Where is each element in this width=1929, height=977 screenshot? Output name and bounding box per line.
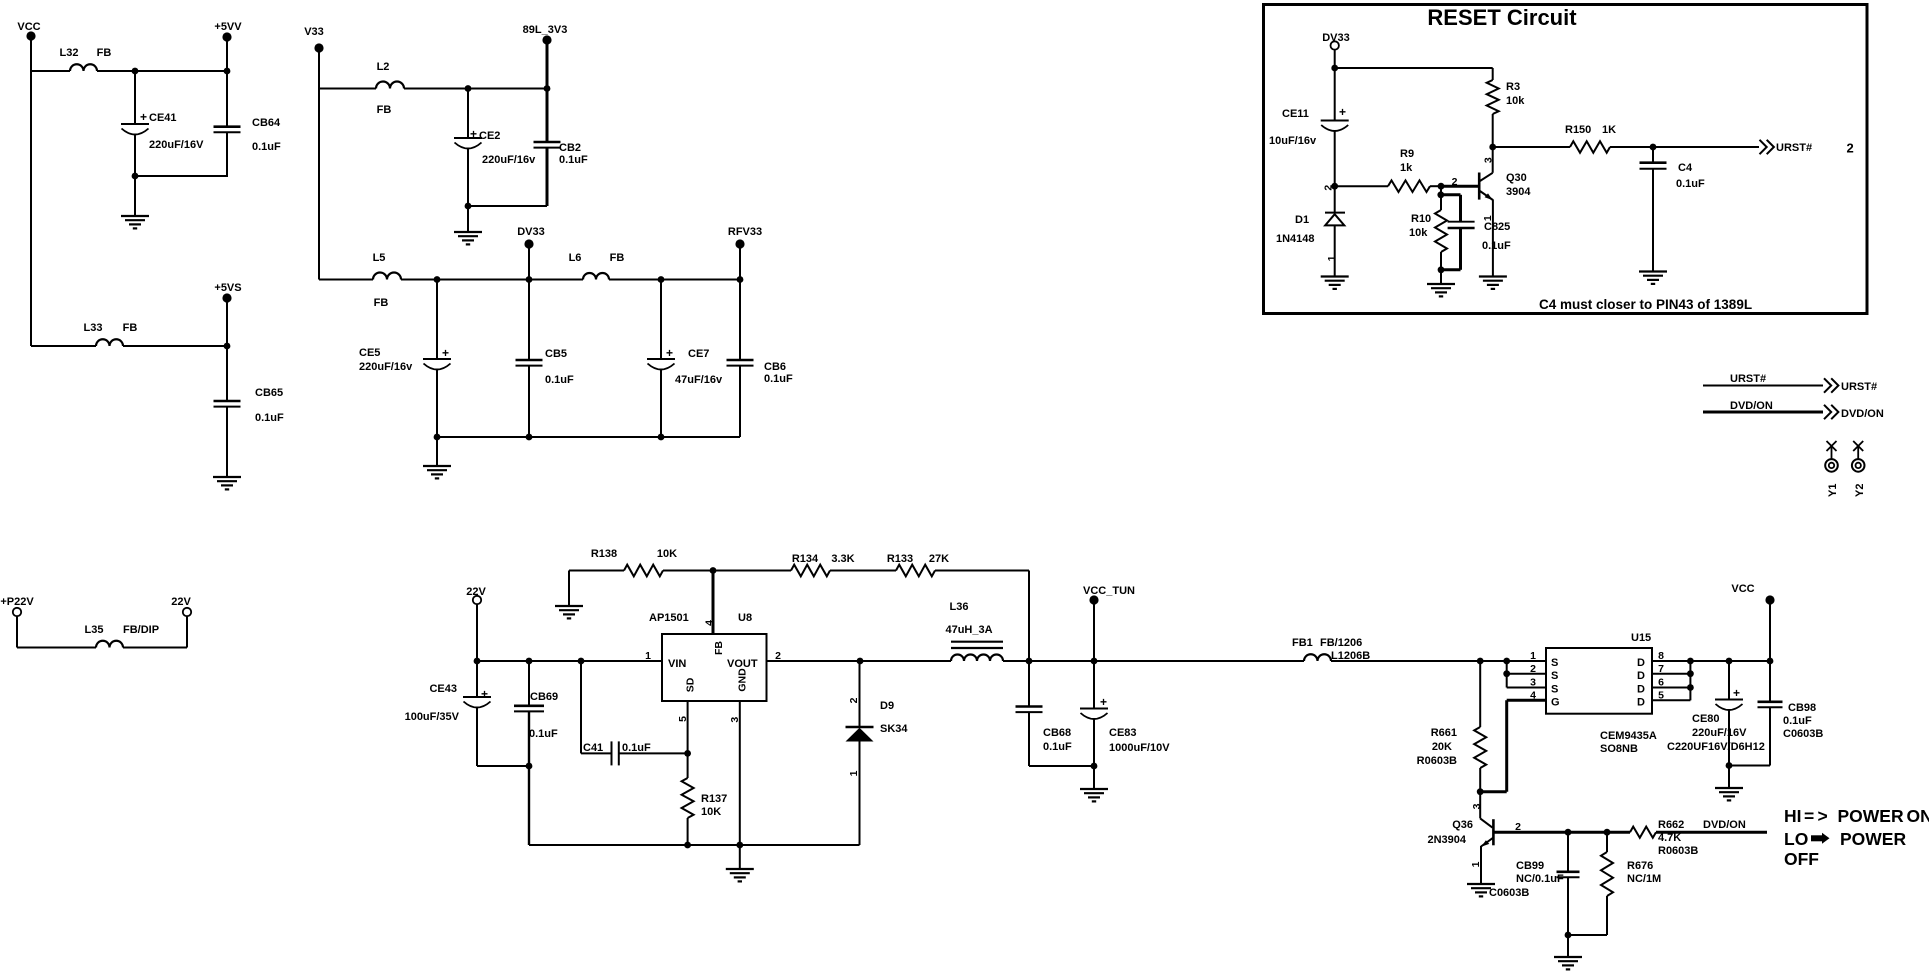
wire (319, 88, 376, 90)
wire (17, 647, 96, 649)
wire (1335, 185, 1388, 187)
svg-text:C4: C4 (1678, 162, 1693, 174)
wire (1440, 186, 1442, 195)
junction (1437, 191, 1444, 198)
wire (1093, 766, 1095, 789)
node +P22V (13, 608, 21, 616)
capacitor CB65 (226, 346, 228, 401)
transistor Q36 2N3904 (1479, 792, 1481, 819)
junction (1726, 762, 1733, 769)
junction (1438, 183, 1445, 190)
svg-text:+: + (666, 346, 673, 360)
connector URST# (1760, 140, 1774, 154)
wire pin7 (1652, 673, 1690, 675)
junction (658, 434, 665, 441)
inductor L5 (373, 273, 401, 280)
junction (434, 434, 441, 441)
svg-text:SD: SD (685, 677, 697, 692)
svg-text:D: D (1637, 684, 1645, 696)
wire pin8 (1652, 660, 1690, 662)
junction (1503, 670, 1510, 677)
svg-text:20K: 20K (1432, 741, 1452, 753)
wire (1728, 766, 1730, 789)
junction (684, 842, 691, 849)
svg-text:89L_3V3: 89L_3V3 (523, 24, 568, 36)
svg-text:3: 3 (1471, 803, 1483, 809)
svg-text:Q36: Q36 (1452, 819, 1473, 831)
ground (555, 606, 583, 618)
wire pin3 (1506, 674, 1508, 688)
svg-text:2: 2 (1452, 176, 1458, 188)
svg-text:DV33: DV33 (517, 226, 545, 238)
capacitor CB64 (226, 71, 228, 127)
node VCC_TUN (1089, 595, 1098, 604)
node V33 (314, 43, 323, 52)
junction (1767, 658, 1774, 665)
node 89L_3V3 (542, 35, 551, 44)
svg-text:D: D (1637, 657, 1645, 669)
wire (404, 88, 547, 90)
wire (568, 571, 570, 607)
wire (476, 604, 478, 661)
capacitor CB69 (528, 661, 530, 706)
inductor L35 (96, 641, 123, 648)
svg-text:2N3904: 2N3904 (1427, 834, 1466, 846)
junction (1331, 183, 1338, 190)
wire (1653, 146, 1759, 148)
wire (319, 279, 373, 281)
svg-text:CE80: CE80 (1692, 713, 1720, 725)
wire (609, 279, 740, 281)
ground (1321, 277, 1349, 289)
wire (16, 616, 18, 648)
svg-text:L33: L33 (84, 322, 103, 334)
wire pin5 (1652, 699, 1690, 701)
capacitor C825 (1441, 193, 1461, 196)
svg-text:220uF/16V: 220uF/16V (149, 139, 204, 151)
ground (1427, 284, 1455, 296)
junction (526, 658, 533, 665)
svg-text:RESET Circuit: RESET Circuit (1427, 5, 1577, 30)
svg-text:0.1uF: 0.1uF (1482, 240, 1511, 252)
svg-text:3.3K: 3.3K (831, 553, 854, 565)
svg-text:CB5: CB5 (545, 348, 567, 360)
svg-text:C220UF16V/D6H12: C220UF16V/D6H12 (1667, 741, 1765, 753)
wire pin5 SD (687, 701, 689, 753)
svg-text:1: 1 (848, 770, 860, 776)
svg-text:S: S (1551, 684, 1558, 696)
wire (1568, 934, 1607, 936)
svg-text:CEM9435A: CEM9435A (1600, 730, 1657, 742)
wire (401, 279, 583, 281)
ground (423, 466, 451, 478)
resistor R662 (1630, 827, 1656, 838)
transistor Q30 3904 (1478, 173, 1481, 200)
svg-text:R137: R137 (701, 793, 727, 805)
capacitor CB2 (546, 89, 549, 142)
svg-text:C41: C41 (583, 742, 603, 754)
inductor L6 (583, 273, 609, 280)
wire VIN (477, 660, 662, 662)
svg-text:220uF/16v: 220uF/16v (482, 154, 536, 166)
svg-text:220uF/16V: 220uF/16V (1692, 727, 1747, 739)
svg-text:1K: 1K (1602, 124, 1616, 136)
junction (684, 750, 691, 757)
svg-text:D: D (1637, 670, 1645, 682)
svg-text:CB64: CB64 (252, 117, 281, 129)
svg-text:LO: LO (1784, 829, 1808, 849)
ground (726, 869, 754, 881)
svg-text:3904: 3904 (1506, 186, 1531, 198)
svg-text:2: 2 (1323, 185, 1335, 191)
ground (121, 216, 149, 228)
junction (1726, 658, 1733, 665)
junction (465, 203, 472, 210)
svg-text:FB/DIP: FB/DIP (123, 624, 159, 636)
svg-text:CE5: CE5 (359, 347, 380, 359)
wire (1729, 765, 1770, 767)
diode D1 1N4148 (1334, 186, 1336, 212)
svg-text:0.1uF: 0.1uF (1676, 178, 1705, 190)
capacitor CE41 (134, 71, 136, 124)
svg-text:2: 2 (1515, 821, 1521, 833)
junction (737, 276, 744, 283)
svg-text:0.1uF: 0.1uF (622, 742, 651, 754)
resistor R133 (896, 565, 935, 577)
wire (318, 89, 320, 280)
wire (569, 570, 624, 572)
svg-text:0.1uF: 0.1uF (1043, 741, 1072, 753)
svg-text:10k: 10k (1409, 227, 1428, 239)
svg-text:Y2: Y2 (1854, 484, 1866, 497)
wire base Q30 (1441, 185, 1479, 188)
svg-text:R662: R662 (1658, 819, 1684, 831)
wire (1093, 604, 1095, 661)
svg-text:FB: FB (713, 641, 725, 655)
wire (318, 52, 320, 89)
svg-text:0.1uF: 0.1uF (252, 141, 281, 153)
svg-text:L5: L5 (373, 252, 386, 264)
wire base Q36 (1493, 831, 1630, 834)
svg-text:10uF/16v: 10uF/16v (1269, 135, 1317, 147)
svg-text:S: S (1551, 670, 1558, 682)
wire (1656, 831, 1767, 834)
junction (1687, 658, 1694, 665)
svg-text:0.1uF: 0.1uF (559, 154, 588, 166)
junction (1091, 763, 1098, 770)
svg-text:47uF/16v: 47uF/16v (675, 374, 723, 386)
svg-text:2: 2 (848, 697, 860, 703)
ground (1554, 957, 1582, 969)
svg-text:10K: 10K (657, 548, 677, 560)
svg-text:L36: L36 (950, 601, 969, 613)
wire (467, 206, 469, 232)
svg-text:Y1: Y1 (1827, 484, 1839, 497)
node RFV33 (735, 239, 744, 248)
svg-text:4: 4 (704, 620, 716, 626)
svg-text:1k: 1k (1400, 162, 1413, 174)
wire (123, 647, 187, 649)
svg-text:1000uF/10V: 1000uF/10V (1109, 742, 1170, 754)
svg-text:CE41: CE41 (149, 112, 177, 124)
capacitor CB98 (1769, 661, 1771, 702)
wire (935, 570, 1029, 572)
wire (468, 205, 547, 207)
node VCC (26, 31, 35, 40)
wire (134, 176, 136, 216)
junction (1026, 658, 1033, 665)
wire (1440, 270, 1442, 284)
wire drain bus (1689, 661, 1691, 700)
svg-text:L6: L6 (569, 252, 582, 264)
svg-text:R0603B: R0603B (1658, 845, 1698, 857)
svg-text:CB99: CB99 (1516, 860, 1544, 872)
svg-text:NC/1M: NC/1M (1627, 873, 1661, 885)
junction (1091, 658, 1098, 665)
svg-text:C0603B: C0603B (1489, 887, 1529, 899)
svg-text:R661: R661 (1431, 727, 1457, 739)
svg-text:CE43: CE43 (429, 683, 457, 695)
wire (226, 41, 228, 71)
svg-text:2: 2 (1847, 141, 1854, 156)
test point Y1 (1825, 441, 1838, 472)
svg-text:FB1: FB1 (1292, 637, 1313, 649)
svg-text:FB/1206: FB/1206 (1320, 637, 1362, 649)
resistor R661 (1479, 661, 1481, 727)
ground (1467, 884, 1495, 896)
svg-text:1: 1 (1326, 255, 1338, 261)
inductor L32 (70, 64, 97, 71)
node +5VV (222, 32, 231, 41)
wire (30, 71, 32, 346)
svg-text:URST#: URST# (1776, 142, 1812, 154)
wire (1493, 146, 1570, 148)
svg-text:+5VS: +5VS (214, 282, 241, 294)
svg-text:0.1uF: 0.1uF (529, 728, 558, 740)
svg-text:G: G (1551, 696, 1560, 708)
node DV33 (524, 239, 533, 248)
ic U8 AP1501 (662, 634, 767, 701)
svg-text:R150: R150 (1565, 124, 1591, 136)
svg-text:+: + (140, 110, 147, 124)
wire (1003, 660, 1304, 662)
svg-text:47uH_3A: 47uH_3A (945, 624, 992, 636)
wire pin2 (1506, 661, 1508, 674)
capacitor CE7 (660, 280, 662, 360)
svg-text:CB65: CB65 (255, 387, 283, 399)
svg-text:>: > (1818, 806, 1828, 826)
svg-text:FB: FB (123, 322, 138, 334)
wire (97, 70, 227, 72)
svg-text:VCC_TUN: VCC_TUN (1083, 585, 1135, 597)
svg-text:1N4148: 1N4148 (1276, 233, 1315, 245)
capacitor CE11 (1334, 68, 1336, 121)
junction (1565, 932, 1572, 939)
wire (1334, 50, 1336, 69)
resistor R676 (1606, 832, 1608, 852)
svg-text:22V: 22V (466, 586, 486, 598)
svg-text:R9: R9 (1400, 148, 1414, 160)
svg-text:+: + (1733, 686, 1740, 700)
wire (1567, 935, 1569, 957)
wire pin6 (1652, 687, 1690, 689)
svg-text:D9: D9 (880, 700, 894, 712)
svg-text:S: S (1551, 657, 1558, 669)
svg-text:VCC: VCC (1731, 583, 1754, 595)
wire (436, 437, 438, 466)
svg-text:CE2: CE2 (479, 130, 500, 142)
junction (526, 276, 533, 283)
ground (1080, 789, 1108, 801)
svg-text:HI: HI (1784, 806, 1802, 826)
svg-text:CE83: CE83 (1109, 727, 1137, 739)
svg-text:5: 5 (677, 716, 689, 722)
svg-text:22V: 22V (171, 596, 191, 608)
svg-text:10k: 10k (1506, 95, 1525, 107)
inductor L2 (376, 82, 404, 89)
resistor R9 (1388, 180, 1430, 192)
svg-text:FB: FB (610, 252, 625, 264)
svg-text:0.1uF: 0.1uF (1783, 715, 1812, 727)
svg-text:FB: FB (97, 47, 112, 59)
svg-text:C825: C825 (1484, 221, 1510, 233)
reset circuit border (1264, 5, 1868, 314)
capacitor C41 (580, 661, 582, 753)
junction (526, 434, 533, 441)
wire (1331, 660, 1546, 662)
svg-text:4.7K: 4.7K (1658, 832, 1681, 844)
resistor R3 (1492, 68, 1494, 80)
svg-text:DVD/ON: DVD/ON (1703, 819, 1746, 831)
wire (1430, 185, 1441, 187)
svg-text:+: + (442, 346, 449, 360)
svg-text:1: 1 (1530, 650, 1536, 662)
svg-text:L32: L32 (60, 47, 79, 59)
svg-text:CB68: CB68 (1043, 727, 1071, 739)
node DV33 (1331, 41, 1339, 49)
svg-text:U15: U15 (1631, 632, 1651, 644)
wire (528, 248, 530, 280)
svg-text:10K: 10K (701, 806, 721, 818)
junction (1604, 829, 1611, 836)
svg-text:R3: R3 (1506, 81, 1520, 93)
svg-text:DVD/ON: DVD/ON (1841, 408, 1884, 420)
wire (1769, 604, 1771, 661)
svg-text:CB98: CB98 (1788, 702, 1816, 714)
svg-text:R134: R134 (792, 553, 819, 565)
svg-text:+5VV: +5VV (214, 21, 242, 33)
svg-text:+P22V: +P22V (0, 596, 34, 608)
node +5VS (222, 293, 231, 302)
junction (578, 658, 585, 665)
svg-text:CB69: CB69 (530, 691, 558, 703)
svg-text:CB6: CB6 (764, 361, 786, 373)
wire (830, 570, 896, 572)
svg-text:V33: V33 (304, 26, 324, 38)
node 22V (473, 596, 481, 604)
capacitor CB99 (1567, 832, 1569, 872)
ground (1715, 788, 1743, 800)
svg-text:220uF/16v: 220uF/16v (359, 361, 413, 373)
ground (213, 477, 241, 489)
capacitor C4 (1652, 147, 1654, 163)
junction (1477, 788, 1484, 795)
svg-text:3: 3 (1483, 157, 1495, 163)
capacitor CB68 (1028, 661, 1030, 707)
junction (658, 276, 665, 283)
svg-text:100uF/35V: 100uF/35V (405, 711, 460, 723)
wire (713, 570, 791, 572)
capacitor CE80 (1728, 661, 1730, 700)
capacitor CB5 (528, 280, 530, 361)
node 22V (183, 608, 191, 616)
inductor L36 (951, 641, 1003, 643)
junction (544, 85, 551, 92)
junction (1687, 684, 1694, 691)
wire (31, 345, 96, 347)
junction (1438, 266, 1445, 273)
svg-text:ON: ON (1907, 806, 1929, 826)
svg-text:SK34: SK34 (880, 723, 908, 735)
svg-text:+: + (1100, 695, 1107, 709)
svg-text:R0603B: R0603B (1417, 755, 1457, 767)
junction (710, 567, 717, 574)
junction (434, 276, 441, 283)
junction (1650, 144, 1657, 151)
wire (529, 844, 860, 846)
wire (135, 175, 228, 177)
svg-text:CE11: CE11 (1282, 108, 1309, 120)
svg-text:R138: R138 (591, 548, 617, 560)
junction (132, 68, 139, 75)
junction (526, 763, 533, 770)
junction (224, 68, 231, 75)
junction (1331, 65, 1338, 72)
wire (31, 70, 70, 72)
svg-text:C4 must closer to PIN43 of 138: C4 must closer to PIN43 of 1389L (1539, 297, 1752, 312)
svg-text:0.1uF: 0.1uF (255, 412, 284, 424)
junction (1565, 829, 1572, 836)
svg-text:U8: U8 (738, 612, 752, 624)
svg-text:FB: FB (377, 104, 392, 116)
svg-text:+: + (1339, 105, 1346, 119)
junction (1503, 658, 1510, 665)
capacitor CB6 (739, 280, 741, 361)
wire (1610, 146, 1653, 148)
ground (1479, 277, 1507, 289)
svg-text:+: + (481, 687, 488, 701)
wire pin3 GND (739, 701, 741, 845)
junction (857, 658, 864, 665)
svg-text:POWER: POWER (1838, 806, 1904, 826)
svg-text:1: 1 (1470, 861, 1482, 867)
capacitor CE83 (1093, 661, 1095, 709)
wire (30, 40, 32, 71)
svg-text:NC/0.1uF: NC/0.1uF (1516, 873, 1564, 885)
svg-text:L35: L35 (85, 624, 104, 636)
svg-text:SO8NB: SO8NB (1600, 743, 1638, 755)
svg-text:URST#: URST# (1841, 381, 1877, 393)
inductor FB1 (1304, 654, 1331, 661)
resistor R137 (687, 753, 689, 778)
ic U15 CEM9435A (1546, 648, 1652, 714)
svg-text:CE7: CE7 (688, 348, 709, 360)
wire (1690, 660, 1770, 662)
svg-text:R676: R676 (1627, 860, 1653, 872)
svg-text:=: = (1804, 806, 1814, 826)
capacitor CE43 (476, 661, 478, 697)
junction (1489, 144, 1496, 151)
